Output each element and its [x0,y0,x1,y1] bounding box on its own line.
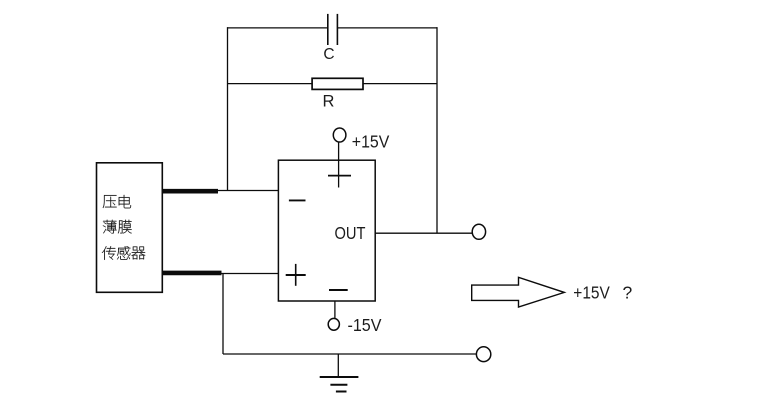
sensor box (piezo film sensor) [97,163,163,292]
op-amp V+ pin plus sign [328,175,351,177]
capacitor C1 plates [327,14,329,45]
wire resistor row right [363,83,437,85]
sensor bottom electrode thick bar [163,271,222,276]
sensor label 压电 薄膜 传感器 [102,195,145,260]
ground symbol bar 1 [320,376,359,378]
svg-text:OUT: OUT [335,223,366,243]
terminal +15V circle [333,128,346,142]
wire sensor bottom to ground rail vertical [222,274,224,355]
svg-text:R: R [323,93,335,111]
svg-text:C: C [323,46,334,63]
block arrow pointing to +15V question [472,277,565,307]
wire top feedback horizontal right (capacitor to right rail) [337,27,437,29]
ground symbol bar 2 [330,384,347,386]
wire -15V supply from op-amp [334,301,336,319]
resistor R1 body [312,78,363,89]
wire feedback right vertical [436,27,438,233]
svg-text:+15V: +15V [573,283,610,303]
svg-text:+15V: +15V [352,131,390,151]
op-amp V- pin minus sign [329,289,348,291]
wire top feedback horizontal left (to capacitor) [228,27,328,29]
terminal ground circle [476,347,490,362]
wire resistor row left [228,83,313,85]
terminal output circle [472,224,485,239]
wire op-amp output [375,232,472,234]
svg-text:?: ? [623,283,633,303]
op-amp inverting input minus sign [289,199,306,201]
svg-text:-15V: -15V [348,315,382,335]
wire feedback left vertical [227,27,229,190]
ground symbol stub [337,354,339,377]
wire non-inverting input (sensor bottom electrode to op-amp) [162,273,278,275]
wire ground rail horizontal [223,353,476,355]
wire +15V supply into op-amp [338,142,340,188]
wire inverting input (sensor top electrode to op-amp) [162,190,278,192]
sensor top electrode thick bar [163,189,219,194]
ground symbol bar 3 [336,391,347,393]
op-amp non-inverting input plus sign [286,274,306,276]
op-amp U1 body [278,160,375,301]
terminal -15V circle [328,318,339,330]
